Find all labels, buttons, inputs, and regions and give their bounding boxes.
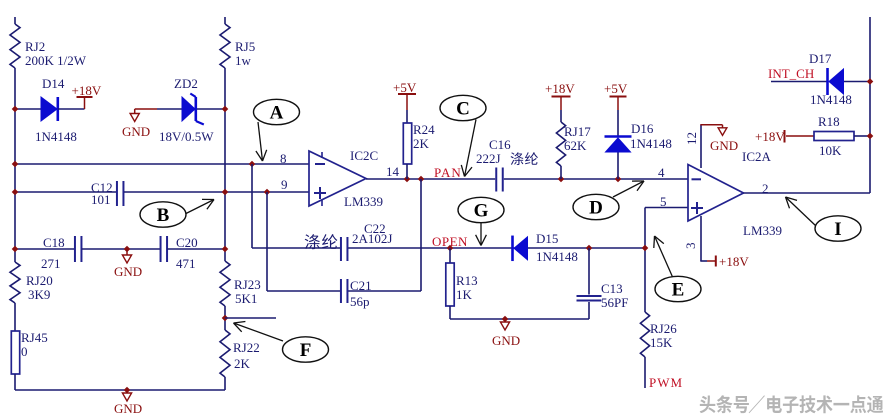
wire pin12 to ground [700,124,722,126]
callout E [654,236,701,302]
svg-text:RJ20: RJ20 [26,273,53,288]
resistor RJ20 [10,262,53,303]
zener diode ZD2 [159,76,214,144]
svg-text:1N4148: 1N4148 [35,129,77,144]
resistor RJ17 [556,122,591,166]
callout A [254,99,300,161]
wire rail2 upper [224,68,226,261]
svg-text:+18V: +18V [719,254,749,269]
svg-text:RJ2: RJ2 [25,39,45,54]
svg-text:222J: 222J [476,151,501,166]
svg-text:1N4148: 1N4148 [810,92,852,107]
svg-text:IC2C: IC2C [350,148,378,163]
svg-text:471: 471 [176,256,196,271]
svg-text:8: 8 [280,151,287,166]
svg-text:RJ5: RJ5 [235,39,255,54]
svg-text:1w: 1w [235,53,252,68]
junction mid ground [124,246,131,253]
wire R18 right [854,135,870,137]
svg-text:2K: 2K [234,356,251,371]
junction C13 top [586,245,593,252]
wire C18-C20 mid [82,248,161,250]
svg-text:5: 5 [660,194,667,209]
resistor RJ5 [220,24,255,68]
svg-text:I: I [834,219,841,240]
wire left rail mid [14,303,16,331]
wire R24 bottom [406,164,408,179]
svg-text:C: C [456,99,470,120]
ground bottom [114,390,142,416]
svg-text:12: 12 [684,132,699,145]
junction RJ23 RJ22 tap [222,315,229,322]
wire RJ17 top [560,110,562,122]
svg-text:+5V: +5V [393,80,417,95]
power +18V at R18 [755,129,814,144]
wire bottom run [15,389,225,391]
wire C22 row right [348,247,645,249]
junction D16 output [615,176,622,183]
label polyester C22 [305,234,338,249]
power +5V at D16 [604,81,628,110]
capacitor C16 [476,137,511,192]
junction ZD2 rail2 [222,106,229,113]
junction R24 output [404,176,411,183]
wire rail2 top stub [224,17,226,24]
junction R18 right rail [867,133,874,140]
wire R24 top [406,110,408,123]
junction RJ17 output [558,176,565,183]
svg-text:271: 271 [41,256,61,271]
diode D14 [35,76,77,144]
svg-text:2A102J: 2A102J [352,231,392,246]
wire D17 right [844,81,870,83]
svg-text:14: 14 [386,164,400,179]
op-amp IC2A [688,149,782,238]
wire left rail upper [14,68,16,262]
junction pin9 rail2 [222,189,229,196]
svg-text:F: F [300,340,312,361]
capacitor C20 [161,235,198,271]
svg-text:+18V: +18V [72,83,102,98]
wire D16 top [617,110,619,137]
svg-text:GND: GND [114,264,142,279]
capacitor C21 [341,278,372,309]
svg-text:RJ17: RJ17 [564,124,591,139]
capacitor C13 [577,281,629,310]
svg-text:R13: R13 [456,273,478,288]
diode D17 [809,51,852,107]
svg-text:+5V: +5V [604,81,628,96]
wire R13 bottom [449,306,451,319]
svg-text:G: G [474,201,489,222]
svg-text:GND: GND [492,333,520,348]
wire C12 right to pin9 [124,191,309,193]
callout B [140,199,214,227]
wire RJ26 bottom [644,357,646,388]
junction D14 left rail [12,106,19,113]
callout C [440,95,486,176]
wire ZD2 anode [157,108,182,110]
svg-text:IC2A: IC2A [742,149,772,164]
svg-text:PAN: PAN [434,165,462,180]
svg-text:15K: 15K [650,335,673,350]
svg-text:+18V: +18V [545,81,575,96]
resistor RJ26 [640,312,677,357]
svg-text:9: 9 [281,177,288,192]
junction pin5 D15 row [642,245,649,252]
svg-text:3: 3 [683,243,698,250]
power +18V at D14 [72,83,102,109]
svg-text:INT_CH: INT_CH [768,66,814,81]
wire D14 anode [15,108,41,110]
svg-text:R18: R18 [818,114,840,129]
svg-text:5K1: 5K1 [235,291,257,306]
junction loop ground [502,316,509,323]
svg-text:1K: 1K [456,287,473,302]
resistor RJ2 [10,24,87,68]
wire pin2 output row [744,192,871,194]
wire right rail [869,17,871,193]
svg-text:A: A [270,103,284,124]
svg-text:D15: D15 [536,231,558,246]
wire C21 row left [267,290,340,292]
junction C20 rail2 [222,246,229,253]
callout F [234,322,329,363]
wire stub at F node [225,317,276,319]
resistor RJ23 [220,261,261,306]
wire ZD2 cathode [197,108,225,110]
wire C21 to output vertical [420,179,422,291]
svg-text:RJ23: RJ23 [234,277,261,292]
svg-text:D17: D17 [809,51,832,66]
power +18V at pin3 [707,254,749,269]
junction C12 left rail [12,189,19,196]
wire RJ17 bottom [560,166,562,179]
resistor R18 [814,114,854,158]
callout G [458,197,504,245]
wire rail2 mid [224,306,226,330]
node feedback tap pin8 [249,161,256,168]
svg-text:18V/0.5W: 18V/0.5W [159,129,214,144]
junction C18 left rail [12,246,19,253]
svg-text:GND: GND [114,401,142,416]
svg-text:1N4148: 1N4148 [536,249,578,264]
diode D16 [605,121,672,152]
svg-text:56PF: 56PF [601,295,628,310]
svg-text:C20: C20 [176,235,198,250]
wire bottom loop row [450,318,589,320]
capacitor C22 [341,221,393,261]
wire D16 bottom [617,153,619,180]
op-amp IC2C [309,148,383,209]
svg-text:+18V: +18V [755,129,785,144]
junction bottom ground [124,387,131,394]
wire pin3 [700,216,702,261]
svg-text:LM339: LM339 [344,194,383,209]
svg-text:10K: 10K [819,143,842,158]
svg-text:D: D [589,198,603,219]
wire left rail bottom [14,374,16,390]
wire C18 left [15,248,75,250]
resistor RJ22 [220,330,260,377]
svg-text:C16: C16 [489,137,511,152]
svg-text:R24: R24 [413,122,435,137]
svg-text:D14: D14 [42,76,65,91]
svg-text:RJ26: RJ26 [650,321,677,336]
wire output row left of C16 [366,178,495,180]
svg-text:GND: GND [710,138,738,153]
svg-text:B: B [157,205,170,226]
junction pin8 left rail [12,161,19,168]
svg-text:0: 0 [21,344,28,359]
svg-text:1N4148: 1N4148 [630,136,672,151]
ground at ZD2 [122,109,157,139]
capacitor C12 [91,180,123,207]
svg-text:D16: D16 [631,121,654,136]
node feedback tap pin9 [264,189,271,196]
svg-text:62K: 62K [564,138,587,153]
wire pin5 vertical [644,208,646,313]
wire pin8 row [15,163,309,165]
svg-text:RJ45: RJ45 [21,330,48,345]
svg-text:C18: C18 [43,235,65,250]
wire pin9 feedback vertical [266,192,268,291]
junction OPEN R13 [447,245,454,252]
svg-text:C13: C13 [601,281,623,296]
resistor R24 [403,122,435,164]
wire C21 row right [348,290,421,292]
wire D14 cathode [58,108,85,110]
ground pin12 [710,125,738,153]
label polyester C16 [511,152,538,165]
svg-text:2K: 2K [413,136,430,151]
svg-text:3K9: 3K9 [28,287,50,302]
svg-text:ZD2: ZD2 [174,76,198,91]
svg-text:4: 4 [658,165,665,180]
wire C13 bottom [588,302,590,319]
callout I [786,197,862,241]
wire C13 top [588,248,590,295]
wire left rail top stub [14,17,16,24]
wire C12 left [15,191,117,193]
junction C21 output [418,176,425,183]
wire pin12 [700,125,702,168]
power +5V at R24 [393,80,417,110]
resistor R13 [446,263,478,306]
resistor RJ45 [11,330,47,374]
svg-text:LM339: LM339 [743,223,782,238]
wire output row right of C16 [504,178,688,180]
svg-text:56p: 56p [350,294,370,309]
svg-text:101: 101 [91,192,111,207]
watermark toutiao [700,395,883,413]
ground R13 C13 loop [492,319,520,348]
svg-text:200K 1/2W: 200K 1/2W [25,53,87,68]
svg-text:GND: GND [122,124,150,139]
wire rail2 bottom [224,377,226,390]
junction D17 right rail [867,78,874,85]
svg-text:RJ22: RJ22 [233,340,260,355]
svg-text:E: E [672,280,685,301]
wire R13 top [449,248,451,263]
power +18V at RJ17 [545,81,575,110]
wire C20 right [167,248,225,250]
capacitor C18 [41,235,81,271]
wire C22 row left [252,247,340,249]
ground C18 C20 mid [114,249,142,279]
diode D15 [513,231,578,264]
svg-text:PWM: PWM [649,375,683,390]
callout D [573,181,644,220]
wire D17 left [771,81,827,83]
wire pin5 row [645,207,688,209]
wire pin8 feedback vertical [251,164,253,248]
